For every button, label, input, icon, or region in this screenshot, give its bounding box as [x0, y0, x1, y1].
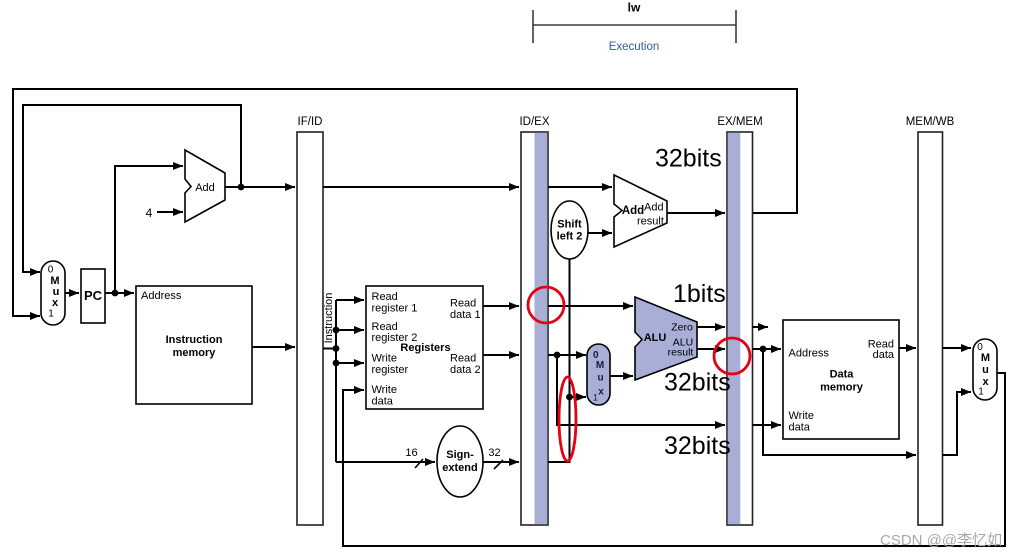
svg-text:x: x: [52, 297, 59, 309]
adder Add (PC+4): [185, 150, 225, 222]
svg-text:32bits: 32bits: [664, 369, 731, 397]
svg-text:extend: extend: [442, 462, 477, 474]
svg-text:Address: Address: [141, 290, 182, 302]
instruction bus: [323, 300, 435, 462]
node PC out junction: [112, 290, 119, 297]
svg-text:Sign-: Sign-: [446, 449, 474, 461]
svg-text:register 1: register 1: [372, 303, 418, 315]
pipeline register IF/ID: [297, 116, 323, 525]
svg-text:result: result: [637, 216, 664, 228]
svg-text:0: 0: [48, 265, 54, 276]
wire PC+4 from IF/ID to ID/EX: [323, 186, 519, 188]
pipeline register EX/MEM: [717, 116, 762, 525]
svg-text:Zero: Zero: [671, 322, 693, 334]
annotation red circle forwarding rs: [528, 287, 564, 323]
wire read data 2 to mux and EX/MEM: [548, 355, 725, 425]
svg-text:lw: lw: [628, 1, 641, 15]
wire branch feedback loop: [13, 89, 797, 316]
svg-text:32: 32: [488, 447, 500, 459]
lw instruction bracket: [533, 10, 736, 43]
svg-text:Registers: Registers: [400, 342, 450, 354]
svg-text:Add: Add: [644, 202, 664, 214]
mux M1 (PC source select): [41, 261, 65, 325]
svg-text:1: 1: [978, 387, 984, 398]
wire mux M2 to ALU: [610, 375, 633, 377]
sign extender: [437, 426, 483, 497]
node ALU result junction: [760, 346, 767, 353]
svg-text:data: data: [873, 349, 895, 361]
svg-text:Shift: Shift: [557, 219, 582, 231]
wire PC+4 to branch adder: [548, 186, 612, 188]
wire write-back loop to registers: [343, 373, 1005, 546]
svg-text:x: x: [598, 387, 604, 398]
wire read data 1 to ALU: [548, 305, 633, 307]
svg-text:data: data: [789, 422, 811, 434]
wire ALU zero to EX/MEM: [697, 326, 725, 328]
svg-text:memory: memory: [820, 382, 864, 394]
memory Data memory: [783, 320, 899, 439]
wire PC to Add: [115, 166, 183, 293]
svg-text:Instruction: Instruction: [166, 334, 223, 346]
svg-text:ALU: ALU: [644, 332, 667, 344]
svg-text:1: 1: [593, 393, 598, 403]
mux M3 (write-back select): [973, 339, 997, 400]
svg-text:Instruction: Instruction: [323, 293, 335, 344]
wire branch adder out to EX/MEM: [667, 212, 725, 214]
svg-text:EX/MEM: EX/MEM: [717, 116, 762, 128]
annotation red circle ALU result: [714, 338, 750, 374]
svg-text:Execution: Execution: [609, 41, 660, 53]
svg-text:u: u: [982, 364, 989, 376]
svg-text:Data: Data: [830, 369, 855, 381]
wire sign-extend out: [483, 461, 519, 463]
svg-text:Read: Read: [450, 353, 476, 365]
annotation red ellipse immediate: [559, 377, 576, 461]
node bus junction main: [333, 345, 340, 352]
wire Add output to IF/ID: [225, 186, 295, 188]
wire ALU result bypass to mux M3: [943, 392, 972, 455]
svg-text:MEM/WB: MEM/WB: [906, 116, 955, 128]
svg-text:32bits: 32bits: [655, 145, 722, 173]
svg-text:4: 4: [146, 206, 153, 220]
svg-text:left 2: left 2: [557, 231, 583, 243]
wire ALU result to EX/MEM: [697, 348, 725, 350]
node immediate junction: [566, 394, 573, 401]
node bus junction read reg 2: [333, 327, 340, 334]
node read data 2 junction: [554, 352, 561, 359]
svg-text:Add: Add: [195, 182, 215, 194]
svg-text:Read: Read: [372, 291, 398, 303]
svg-text:16: 16: [405, 447, 417, 459]
wire read data 2 to ID/EX: [483, 354, 519, 356]
svg-text:data 1: data 1: [450, 309, 481, 321]
svg-text:M: M: [596, 360, 604, 371]
wire zero stub: [753, 326, 769, 328]
register PC: [81, 269, 105, 323]
svg-text:register: register: [372, 364, 409, 376]
svg-text:result: result: [668, 347, 694, 359]
wire read data to mux M3: [943, 347, 972, 349]
svg-text:Write: Write: [372, 353, 397, 365]
wire read data 1 to ID/EX: [483, 305, 519, 307]
slash 32-bit: [494, 460, 503, 469]
svg-text:data: data: [372, 396, 394, 408]
wire immediate to shift and mux: [548, 259, 586, 462]
svg-text:Address: Address: [789, 348, 830, 360]
pipeline register MEM/WB: [906, 116, 955, 525]
svg-text:1bits: 1bits: [673, 280, 726, 308]
svg-text:PC: PC: [84, 288, 103, 303]
wire shift left 2 out to branch adder: [588, 232, 612, 234]
wire constant 4 to Add: [157, 211, 183, 213]
svg-text:Write: Write: [372, 384, 397, 396]
svg-text:32bits: 32bits: [664, 432, 731, 460]
svg-text:u: u: [597, 373, 603, 384]
wire data memory read data to MEM/WB: [899, 347, 916, 349]
svg-text:Write: Write: [789, 410, 814, 422]
svg-text:memory: memory: [173, 347, 217, 359]
svg-text:IF/ID: IF/ID: [298, 116, 323, 128]
svg-text:1: 1: [48, 309, 54, 320]
wire PC out to instruction memory: [105, 292, 134, 294]
wire mux M1 to PC: [65, 292, 79, 294]
node Add out junction: [238, 184, 245, 191]
svg-text:ID/EX: ID/EX: [519, 116, 549, 128]
wire PC+4 feedback loop: [23, 105, 241, 272]
shift left 2: [551, 201, 588, 259]
node bus junction write reg: [333, 360, 340, 367]
wire write data to data memory: [753, 424, 782, 426]
memory Instruction memory: [136, 286, 252, 404]
wire ALU result to data memory: [753, 349, 917, 455]
register file Registers: [366, 286, 483, 409]
op-amp ALU: [635, 297, 697, 380]
svg-text:data 2: data 2: [450, 364, 481, 376]
mux M2 (ALU operand B): [587, 344, 610, 405]
pipeline register ID/EX: [519, 116, 549, 525]
slash 16-bit: [415, 459, 423, 468]
svg-text:CSDN @@李忆如: CSDN @@李忆如: [880, 532, 1002, 549]
adder Add (branch target): [614, 175, 667, 247]
svg-text:M: M: [981, 352, 990, 364]
wire instruction memory out: [252, 346, 295, 348]
svg-text:Read: Read: [450, 298, 476, 310]
